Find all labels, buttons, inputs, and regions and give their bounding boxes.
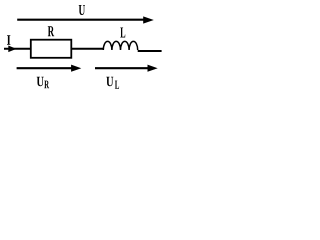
arrowhead of U_R arrow [71,65,81,72]
arrowhead of U arrow [143,16,154,23]
wire left lead into resistor [4,48,31,50]
wire U_R arrow shaft (voltage across R) [17,67,72,69]
label U of UL [106,77,113,87]
wire U arrow shaft (total voltage arrow) [17,19,144,21]
wire right lead of inductor [138,50,162,52]
node label I (current) [7,35,10,44]
value label R [48,26,54,36]
wire between resistor and inductor [72,48,104,50]
wire U_L arrow shaft (voltage across L) [95,67,149,69]
arrowhead of U_L arrow [148,65,158,72]
subscript R of UR [44,81,49,89]
subscript L of UL [115,81,119,89]
inductor L coil (4 arches) [103,41,137,50]
arrowhead current direction I [8,46,16,53]
resistor R body [31,40,72,58]
label U of UR [37,77,44,87]
node label U (total voltage) [79,5,85,15]
value label L [120,28,125,38]
